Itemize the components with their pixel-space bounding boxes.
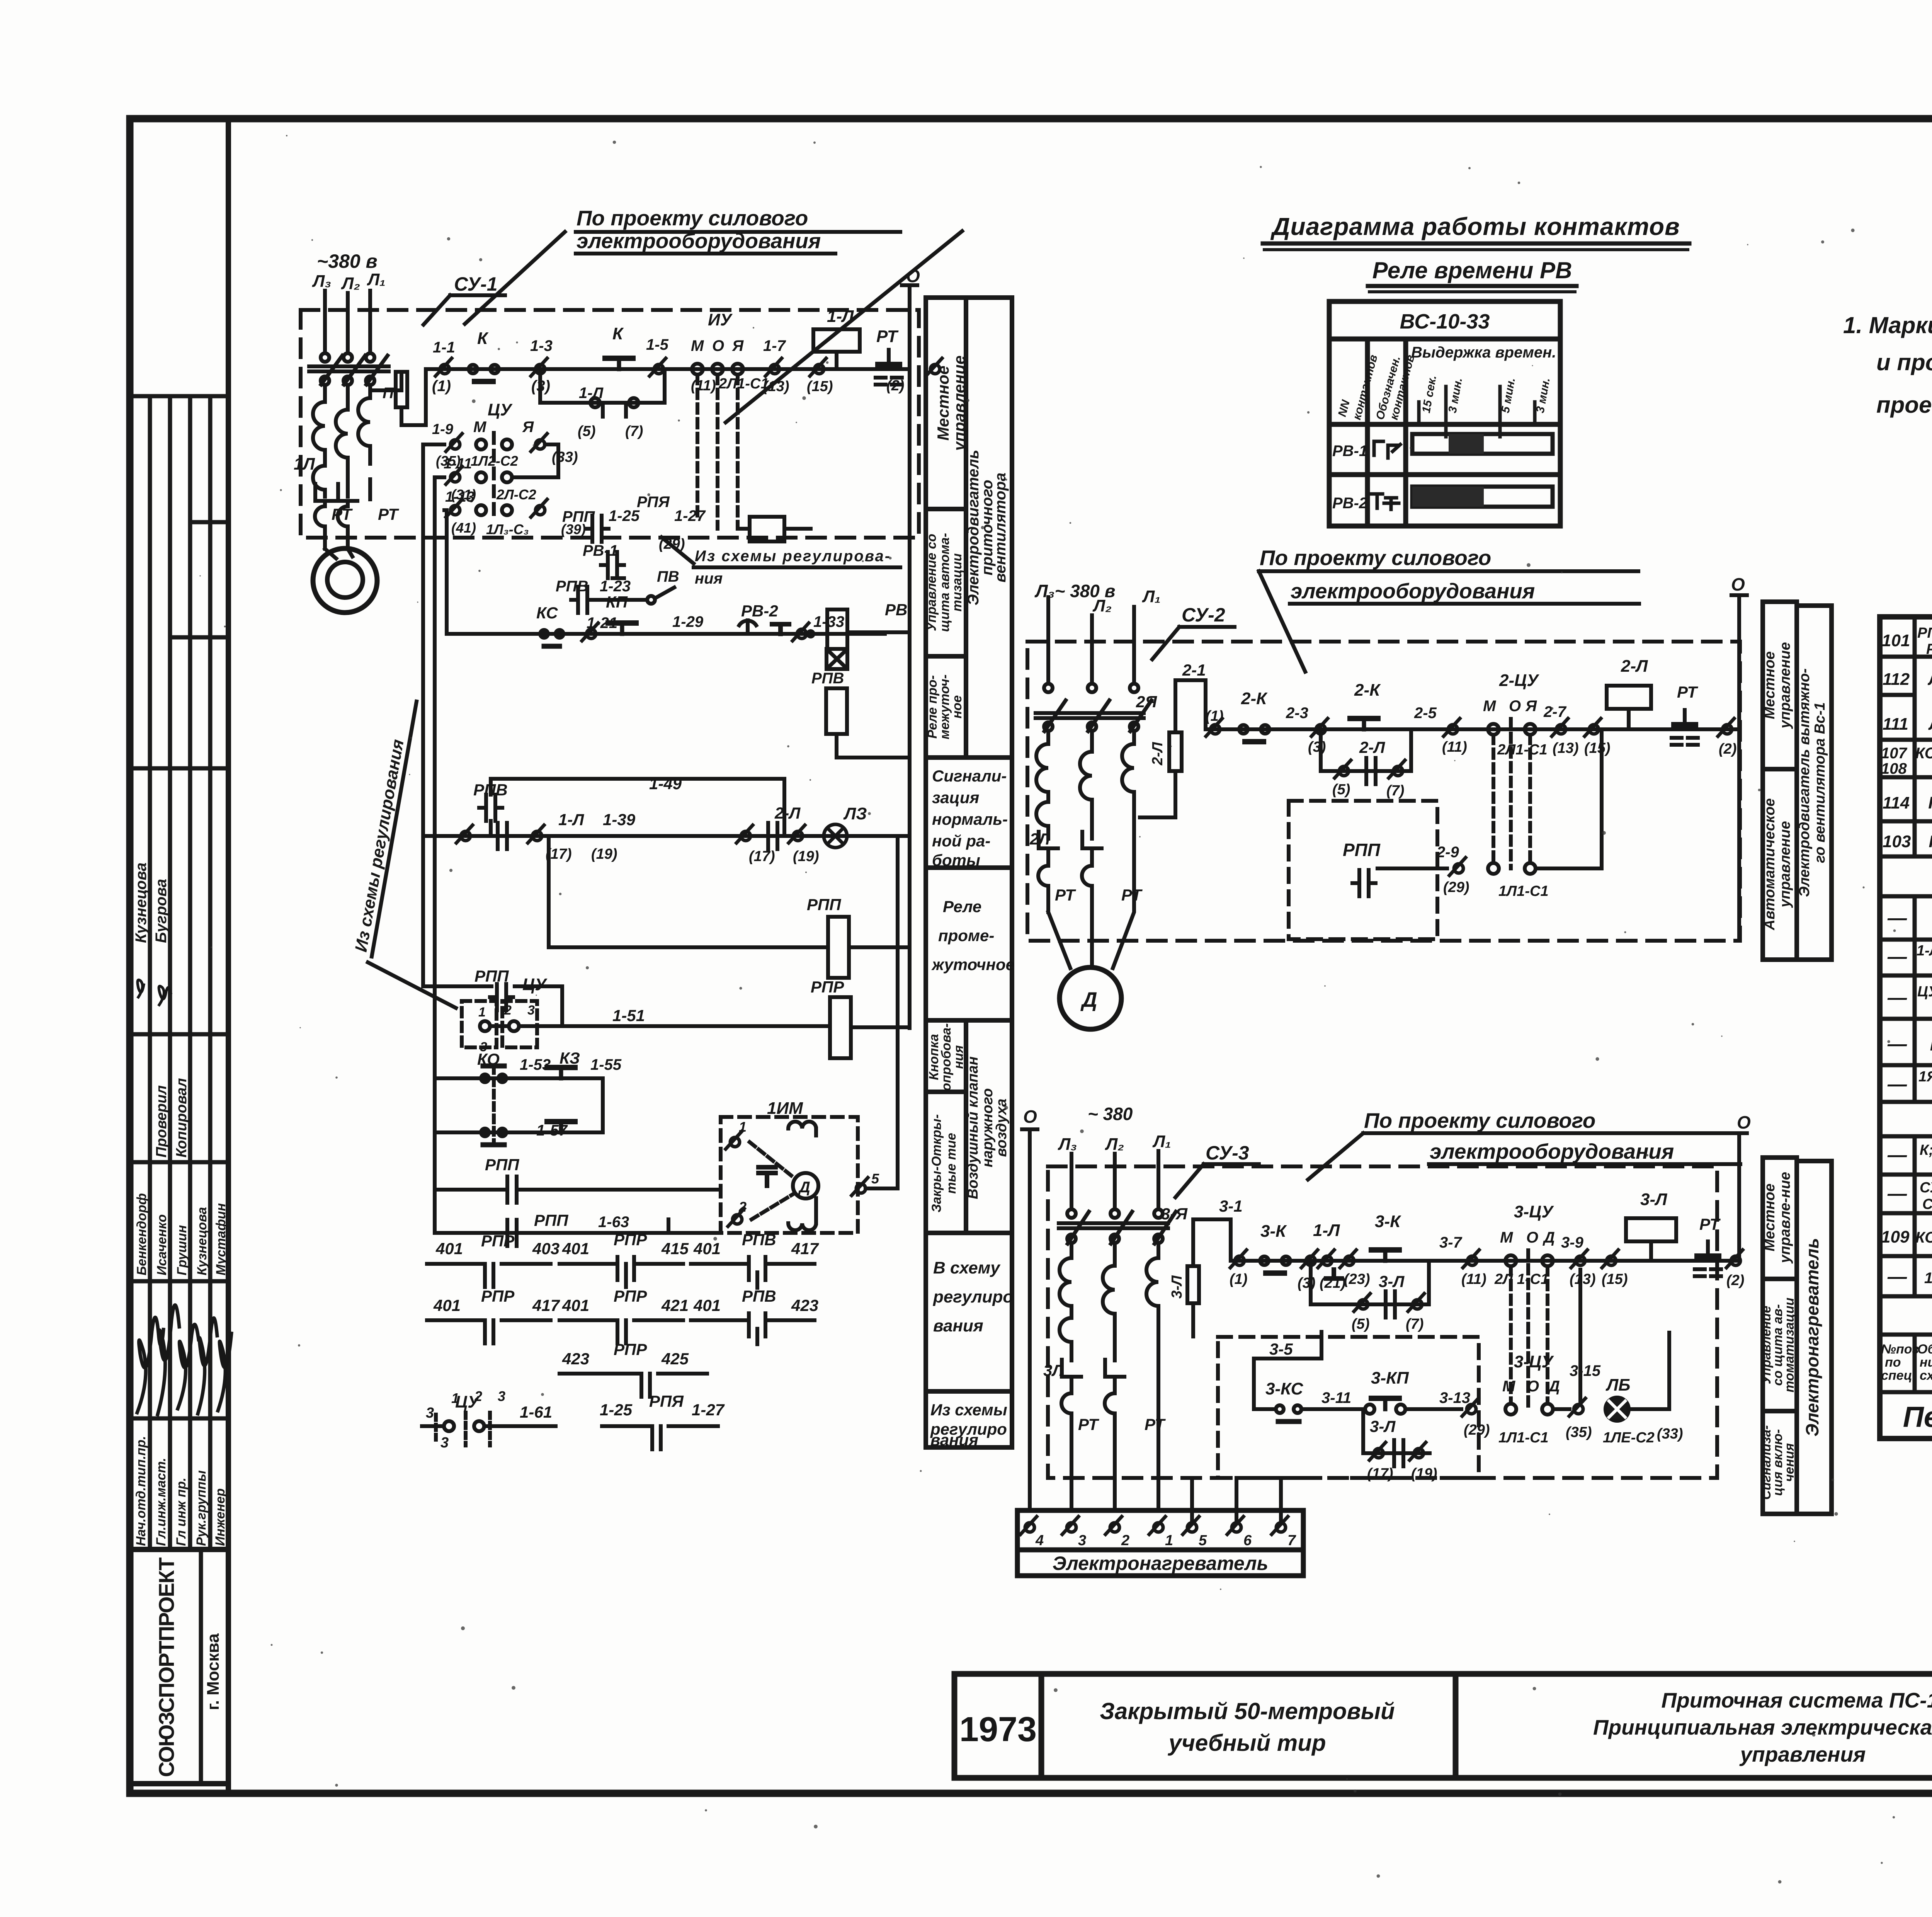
svg-text:1-1: 1-1 bbox=[433, 339, 455, 356]
svg-text:СУ-3: СУ-3 bbox=[1206, 1142, 1249, 1164]
svg-text:Бенкендорф: Бенкендорф bbox=[134, 1193, 149, 1275]
svg-text:КП: КП bbox=[606, 593, 628, 611]
svg-text:2-3: 2-3 bbox=[1286, 705, 1308, 722]
svg-text:Принципиальная электрическая: Принципиальная электрическая схема bbox=[1593, 1715, 1932, 1739]
svg-text:(11): (11) bbox=[1442, 739, 1467, 755]
svg-text:1ЛЕ-С2: 1ЛЕ-С2 bbox=[1603, 1430, 1655, 1446]
svg-text:(33): (33) bbox=[552, 449, 578, 465]
svg-text:Управление со: Управление со bbox=[924, 534, 939, 631]
svg-text:(19): (19) bbox=[591, 846, 617, 862]
svg-text:проекту силового электрообор: проекту силового электрооборудования. bbox=[1876, 392, 1932, 418]
svg-text:1-Л: 1-Л bbox=[558, 810, 584, 829]
svg-text:6: 6 bbox=[1243, 1532, 1252, 1549]
svg-text:Из схемы регулирова-: Из схемы регулирова- bbox=[695, 548, 891, 565]
svg-text:107: 107 bbox=[1881, 745, 1907, 762]
svg-text:ПВ: ПВ bbox=[1928, 793, 1932, 812]
svg-text:3-Л: 3-Л bbox=[1370, 1417, 1396, 1435]
svg-text:Гл инж пр.: Гл инж пр. bbox=[174, 1478, 189, 1546]
svg-text:схеме: схеме bbox=[1920, 1368, 1932, 1383]
svg-text:1-5: 1-5 bbox=[646, 336, 669, 353]
svg-text:(1): (1) bbox=[1206, 708, 1223, 724]
svg-text:3-11: 3-11 bbox=[1321, 1389, 1351, 1406]
svg-text:РВ: РВ bbox=[1929, 832, 1932, 851]
svg-text:РПП: РПП bbox=[485, 1156, 519, 1174]
svg-text:(19): (19) bbox=[1411, 1466, 1437, 1482]
svg-text:РПВ,РПЯ: РПВ,РПЯ bbox=[1917, 625, 1932, 641]
svg-text:Проверил: Проверил bbox=[153, 1085, 170, 1158]
svg-text:1973: 1973 bbox=[959, 1710, 1037, 1749]
svg-text:СОЮЗСПОРТПРОЕКТ: СОЮЗСПОРТПРОЕКТ bbox=[154, 1558, 179, 1777]
svg-text:№поз: №поз bbox=[1881, 1342, 1919, 1357]
svg-text:Выдержка времен.: Выдержка времен. bbox=[1411, 344, 1556, 361]
svg-text:ИУ: ИУ bbox=[708, 310, 733, 329]
svg-text:тизации: тизации bbox=[950, 553, 964, 611]
svg-text:3-Л: 3-Л bbox=[1379, 1272, 1405, 1290]
svg-text:КС; КП: КС; КП bbox=[1915, 745, 1932, 762]
svg-text:3-15: 3-15 bbox=[1570, 1362, 1601, 1379]
svg-text:РПЯ: РПЯ bbox=[637, 494, 670, 511]
svg-text:КЗ: КЗ bbox=[560, 1049, 580, 1067]
svg-text:СУ-2: СУ-2 bbox=[1182, 604, 1225, 626]
svg-text:Л₃: Л₃ bbox=[1058, 1135, 1077, 1154]
svg-text:5: 5 bbox=[1199, 1532, 1207, 1549]
svg-text:РПП: РПП bbox=[474, 967, 509, 985]
svg-text:3-КП: 3-КП bbox=[1371, 1369, 1409, 1388]
svg-text:2-5: 2-5 bbox=[1414, 705, 1437, 722]
svg-text:417: 417 bbox=[791, 1239, 819, 1258]
svg-text:регулиро: регулиро bbox=[933, 1287, 1013, 1306]
svg-text:(41): (41) bbox=[451, 520, 476, 536]
svg-text:1Л1-С1: 1Л1-С1 bbox=[1498, 883, 1549, 899]
svg-text:Электронагреватель: Электронагреватель bbox=[1053, 1553, 1268, 1574]
svg-text:М: М bbox=[1500, 1229, 1514, 1246]
svg-text:2-1: 2-1 bbox=[1182, 661, 1206, 679]
svg-text:3-Л: 3-Л bbox=[1640, 1190, 1667, 1209]
svg-text:3-ЦУ: 3-ЦУ bbox=[1514, 1202, 1554, 1221]
svg-text:Из схемы: Из схемы bbox=[930, 1401, 1007, 1419]
svg-text:(1): (1) bbox=[1230, 1271, 1247, 1287]
svg-text:(2): (2) bbox=[886, 378, 904, 394]
svg-text:О: О bbox=[1509, 698, 1521, 715]
svg-text:К: К bbox=[612, 324, 624, 343]
svg-text:РПП: РПП bbox=[807, 896, 841, 914]
svg-text:423: 423 bbox=[562, 1350, 589, 1368]
svg-text:(1): (1) bbox=[432, 378, 451, 395]
svg-text:ЦУ: ЦУ bbox=[488, 400, 513, 419]
svg-text:3: 3 bbox=[527, 1003, 535, 1018]
svg-text:417: 417 bbox=[532, 1296, 560, 1314]
svg-text:401: 401 bbox=[435, 1239, 463, 1258]
svg-text:1-63: 1-63 bbox=[598, 1214, 629, 1231]
svg-text:Инженер: Инженер bbox=[213, 1488, 228, 1546]
svg-text:П: П bbox=[383, 385, 394, 402]
svg-text:г. Москва: г. Москва bbox=[204, 1633, 223, 1710]
svg-text:1-9: 1-9 bbox=[432, 421, 453, 438]
svg-text:2-9: 2-9 bbox=[1436, 844, 1459, 861]
svg-text:РПП: РПП bbox=[1343, 840, 1381, 860]
svg-text:401: 401 bbox=[693, 1296, 721, 1314]
svg-text:3-7: 3-7 bbox=[1439, 1234, 1463, 1251]
svg-text:КО; КЗ: КО; КЗ bbox=[1915, 1229, 1932, 1246]
svg-text:3-1: 3-1 bbox=[1219, 1197, 1243, 1215]
svg-text:Д: Д bbox=[798, 1179, 810, 1196]
svg-text:108: 108 bbox=[1881, 760, 1907, 777]
svg-text:(15): (15) bbox=[1602, 1271, 1628, 1287]
svg-text:3-К: 3-К bbox=[1260, 1222, 1287, 1241]
svg-text:3-Л: 3-Л bbox=[1169, 1275, 1185, 1299]
svg-text:1-27: 1-27 bbox=[692, 1401, 725, 1419]
svg-text:1-7: 1-7 bbox=[763, 337, 786, 354]
svg-text:Закрытый 50-метровый: Закрытый 50-метровый bbox=[1100, 1698, 1395, 1724]
svg-text:2: 2 bbox=[474, 1388, 482, 1404]
svg-text:(29): (29) bbox=[1464, 1422, 1490, 1438]
svg-text:2Л1-С1: 2Л1-С1 bbox=[718, 376, 769, 392]
svg-text:—: — bbox=[1887, 946, 1907, 967]
svg-text:(15): (15) bbox=[1584, 740, 1611, 756]
svg-text:—: — bbox=[1887, 1183, 1907, 1204]
svg-text:2Л 1-С1: 2Л 1-С1 bbox=[1494, 1271, 1549, 1287]
svg-text:1ИМ: 1ИМ bbox=[1924, 1270, 1932, 1287]
svg-text:3: 3 bbox=[440, 1435, 449, 1451]
svg-text:3-5: 3-5 bbox=[1269, 1340, 1293, 1358]
svg-text:РВ-2: РВ-2 bbox=[741, 602, 778, 620]
svg-text:РТ: РТ bbox=[876, 327, 899, 346]
svg-text:Реле: Реле bbox=[943, 897, 981, 916]
svg-text:О: О bbox=[1731, 574, 1745, 594]
svg-text:3-К: 3-К bbox=[1375, 1212, 1401, 1231]
svg-text:401: 401 bbox=[433, 1296, 461, 1314]
svg-text:1-29: 1-29 bbox=[672, 613, 704, 630]
svg-text:го вентилятора Вс-1: го вентилятора Вс-1 bbox=[1812, 702, 1828, 863]
svg-text:О: О bbox=[1737, 1112, 1751, 1132]
svg-text:7: 7 bbox=[1287, 1532, 1296, 1549]
svg-text:111: 111 bbox=[1883, 715, 1908, 734]
svg-text:425: 425 bbox=[661, 1350, 689, 1368]
svg-text:401: 401 bbox=[562, 1296, 589, 1314]
svg-text:—: — bbox=[1887, 1266, 1907, 1287]
svg-text:электрооборудования: электрооборудования bbox=[1430, 1139, 1674, 1163]
svg-text:101: 101 bbox=[1882, 631, 1910, 650]
svg-text:РПВ: РПВ bbox=[742, 1231, 776, 1249]
svg-text:ния: ния bbox=[695, 570, 723, 587]
svg-text:Обозначе-: Обозначе- bbox=[1917, 1342, 1932, 1357]
svg-text:1: 1 bbox=[451, 1390, 459, 1406]
svg-text:РВ: РВ bbox=[885, 601, 907, 619]
svg-text:(3): (3) bbox=[1298, 1275, 1315, 1291]
svg-text:КС: КС bbox=[536, 604, 558, 622]
svg-text:По проекту силового: По проекту силового bbox=[1364, 1108, 1595, 1132]
svg-text:~380 в: ~380 в bbox=[317, 250, 378, 272]
svg-text:1Л: 1Л bbox=[294, 455, 315, 473]
svg-text:тые тие: тые тие bbox=[944, 1133, 959, 1194]
svg-text:2-Л: 2-Л bbox=[1621, 657, 1648, 676]
svg-text:(17): (17) bbox=[749, 848, 775, 865]
svg-text:Местное: Местное bbox=[1762, 1183, 1778, 1251]
svg-text:Кузнецова: Кузнецова bbox=[195, 1207, 209, 1275]
svg-text:(5): (5) bbox=[1352, 1316, 1369, 1332]
svg-text:Закры-Откры-: Закры-Откры- bbox=[929, 1114, 944, 1212]
svg-text:проме-: проме- bbox=[938, 926, 994, 945]
svg-text:1-11: 1-11 bbox=[444, 456, 472, 472]
svg-text:1-39: 1-39 bbox=[603, 810, 636, 829]
svg-text:ние по: ние по bbox=[1920, 1355, 1932, 1370]
svg-text:Л₁: Л₁ bbox=[367, 270, 386, 289]
svg-text:О: О bbox=[712, 337, 724, 354]
svg-text:1Л1-С1: 1Л1-С1 bbox=[1498, 1430, 1549, 1446]
svg-text:2-7: 2-7 bbox=[1543, 703, 1567, 720]
svg-text:вания: вания bbox=[930, 1431, 978, 1449]
svg-text:РПВ: РПВ bbox=[742, 1287, 776, 1305]
svg-text:Нач.отд.тип.пр.: Нач.отд.тип.пр. bbox=[134, 1436, 148, 1546]
svg-text:2Л1-С1: 2Л1-С1 bbox=[1497, 742, 1548, 758]
svg-text:Грушин: Грушин bbox=[175, 1225, 189, 1275]
svg-text:(7): (7) bbox=[1386, 783, 1404, 799]
svg-text:РПР: РПР bbox=[481, 1232, 515, 1250]
svg-text:1-Л: 1-Л bbox=[827, 307, 854, 326]
svg-text:2-Л: 2-Л bbox=[1150, 742, 1166, 766]
svg-text:вентилятора: вентилятора bbox=[992, 473, 1009, 582]
svg-text:РТ: РТ bbox=[1055, 886, 1076, 904]
svg-text:1-61: 1-61 bbox=[520, 1403, 552, 1421]
svg-text:415: 415 bbox=[661, 1239, 689, 1258]
svg-text:РТ: РТ bbox=[1699, 1215, 1721, 1233]
svg-text:2Л-С2: 2Л-С2 bbox=[496, 487, 536, 502]
svg-text:Приточная система ПС-1.: Приточная система ПС-1. bbox=[1662, 1688, 1932, 1712]
svg-text:РТ: РТ bbox=[1078, 1415, 1099, 1433]
svg-text:(2): (2) bbox=[1726, 1272, 1744, 1289]
svg-text:(19): (19) bbox=[793, 848, 819, 865]
svg-text:ЛЗ: ЛЗ bbox=[843, 804, 867, 823]
svg-text:3: 3 bbox=[426, 1405, 434, 1421]
svg-text:управление: управление bbox=[1777, 642, 1793, 729]
svg-text:(13): (13) bbox=[1553, 740, 1579, 756]
svg-text:ПВ: ПВ bbox=[657, 568, 679, 585]
svg-text:управление: управление bbox=[950, 356, 968, 452]
svg-text:401: 401 bbox=[562, 1239, 589, 1258]
svg-text:2: 2 bbox=[738, 1199, 747, 1215]
svg-text:электрооборудования: электрооборудования bbox=[1291, 579, 1535, 603]
svg-text:—: — bbox=[1887, 1073, 1907, 1095]
svg-text:В схему: В схему bbox=[933, 1258, 1001, 1277]
svg-text:М: М bbox=[1483, 698, 1497, 715]
svg-text:1-51: 1-51 bbox=[612, 1006, 645, 1025]
svg-text:К: К bbox=[477, 329, 489, 348]
svg-text:421: 421 bbox=[661, 1296, 689, 1314]
svg-text:томатизации: томатизации bbox=[1782, 1297, 1797, 1393]
svg-text:РТ: РТ bbox=[378, 505, 399, 523]
svg-text:—: — bbox=[1887, 987, 1907, 1008]
svg-text:нормаль-: нормаль- bbox=[932, 810, 1008, 828]
svg-text:1Л₃-С₃: 1Л₃-С₃ bbox=[486, 521, 529, 537]
svg-text:По проекту силового: По проекту силового bbox=[577, 206, 808, 230]
svg-text:3-КС: 3-КС bbox=[1265, 1379, 1304, 1398]
svg-text:2-Л: 2-Л bbox=[774, 804, 801, 822]
svg-text:СУ-3: СУ-3 bbox=[1922, 1196, 1932, 1212]
svg-text:2Я: 2Я bbox=[1136, 693, 1157, 711]
svg-text:О: О bbox=[906, 266, 920, 286]
svg-text:(15): (15) bbox=[807, 378, 833, 395]
svg-text:РВ-2: РВ-2 bbox=[1332, 495, 1367, 512]
svg-text:по: по bbox=[1885, 1355, 1901, 1370]
svg-text:(11): (11) bbox=[1461, 1271, 1486, 1287]
svg-text:Электродвигатель вытяжно-: Электродвигатель вытяжно- bbox=[1796, 668, 1813, 897]
svg-text:(35): (35) bbox=[1566, 1424, 1592, 1440]
svg-text:1. Маркировка клемм на бло: 1. Маркировка клемм на блоках управления bbox=[1843, 312, 1932, 338]
svg-text:(11): (11) bbox=[691, 378, 716, 394]
svg-text:РТ: РТ bbox=[1930, 1035, 1932, 1054]
svg-text:Автоматическое: Автоматическое bbox=[1762, 798, 1778, 930]
svg-text:управления: управления bbox=[1739, 1742, 1866, 1766]
svg-text:114: 114 bbox=[1883, 793, 1910, 812]
svg-text:(33): (33) bbox=[1657, 1426, 1683, 1442]
svg-text:К; 2-К;: К; 2-К; bbox=[1920, 1142, 1932, 1158]
svg-text:1: 1 bbox=[1165, 1532, 1173, 1549]
svg-text:ния: ния bbox=[951, 1045, 966, 1069]
svg-text:РТ: РТ bbox=[332, 505, 353, 523]
svg-text:1: 1 bbox=[739, 1119, 747, 1135]
svg-text:103: 103 bbox=[1883, 832, 1911, 851]
svg-text:(29): (29) bbox=[1443, 879, 1469, 896]
svg-text:1: 1 bbox=[478, 1005, 486, 1020]
svg-text:М: М bbox=[691, 337, 704, 354]
svg-text:109: 109 bbox=[1881, 1227, 1910, 1246]
svg-text:Электронагреватель: Электронагреватель bbox=[1802, 1238, 1822, 1437]
svg-text:1-23: 1-23 bbox=[600, 578, 631, 595]
svg-text:(2): (2) bbox=[1719, 741, 1736, 757]
svg-text:(5): (5) bbox=[578, 423, 595, 439]
svg-text:Л₁: Л₁ bbox=[1152, 1132, 1171, 1151]
svg-text:1-13: 1-13 bbox=[445, 489, 474, 505]
svg-text:Л₂: Л₂ bbox=[1105, 1135, 1124, 1154]
svg-text:чения: чения bbox=[1782, 1443, 1797, 1482]
svg-text:(3): (3) bbox=[1308, 739, 1326, 755]
svg-text:1-27: 1-27 bbox=[674, 507, 706, 524]
svg-text:РПР: РПР bbox=[614, 1231, 647, 1249]
svg-text:Я: Я bbox=[522, 419, 534, 436]
svg-text:Диаграмма работы контактов: Диаграмма работы контактов bbox=[1270, 213, 1680, 240]
svg-text:(17): (17) bbox=[1367, 1466, 1393, 1482]
svg-text:(21): (21) bbox=[1320, 1275, 1346, 1291]
svg-text:РПР: РПР bbox=[614, 1287, 647, 1305]
svg-text:423: 423 bbox=[791, 1296, 818, 1314]
svg-text:РПВ: РПВ bbox=[811, 670, 844, 687]
svg-text:3: 3 bbox=[1078, 1532, 1086, 1549]
svg-text:(7): (7) bbox=[1406, 1316, 1423, 1332]
svg-text:Перечень приборов и аппар: Перечень приборов и аппаратуры bbox=[1903, 1401, 1932, 1433]
svg-text:РТ: РТ bbox=[1677, 683, 1698, 701]
svg-text:1ИМ: 1ИМ bbox=[767, 1099, 803, 1118]
svg-text:—: — bbox=[1887, 1144, 1907, 1166]
svg-text:1-Л: 1-Л bbox=[1313, 1221, 1340, 1240]
svg-text:Л₁: Л₁ bbox=[1142, 587, 1161, 606]
svg-text:Я: Я bbox=[1525, 698, 1537, 715]
svg-text:управле-ние: управле-ние bbox=[1777, 1172, 1793, 1264]
svg-text:ВС-10-33: ВС-10-33 bbox=[1400, 310, 1490, 333]
svg-text:Воздушный клапан: Воздушный клапан bbox=[965, 1056, 981, 1199]
svg-text:РПП: РПП bbox=[562, 508, 595, 525]
svg-text:2-К: 2-К bbox=[1241, 689, 1268, 708]
svg-text:зация: зация bbox=[932, 788, 979, 807]
svg-text:ной ра-: ной ра- bbox=[932, 832, 990, 850]
svg-text:2: 2 bbox=[1121, 1532, 1129, 1549]
svg-text:Кузнецова: Кузнецова bbox=[133, 863, 150, 943]
svg-text:—: — bbox=[1887, 907, 1907, 929]
svg-text:и проводов, указанная в скобка: и проводов, указанная в скобках принята … bbox=[1876, 349, 1932, 375]
svg-text:боты: боты bbox=[932, 851, 980, 869]
svg-text:Л₂: Л₂ bbox=[1092, 596, 1112, 615]
svg-text:2-К: 2-К bbox=[1354, 681, 1381, 700]
svg-text:РТ: РТ bbox=[1145, 1415, 1166, 1433]
svg-text:спец: спец bbox=[1881, 1368, 1912, 1383]
svg-text:1Л2-С2: 1Л2-С2 bbox=[471, 453, 518, 469]
svg-text:РпР: РпР bbox=[1926, 641, 1932, 657]
svg-text:Д: Д bbox=[1543, 1229, 1555, 1246]
svg-text:1Я; 2-Я;: 1Я; 2-Я; bbox=[1918, 1069, 1932, 1085]
svg-text:Сигнали-: Сигнали- bbox=[932, 767, 1007, 785]
svg-text:управление: управление bbox=[1777, 821, 1793, 908]
svg-text:Гл.инж.маст.: Гл.инж.маст. bbox=[154, 1458, 168, 1546]
svg-text:Бугрова: Бугрова bbox=[153, 879, 170, 943]
svg-text:РВ-1: РВ-1 bbox=[1332, 443, 1367, 460]
svg-text:РПВ: РПВ bbox=[556, 578, 588, 595]
svg-text:(7): (7) bbox=[625, 423, 643, 439]
svg-text:5: 5 bbox=[871, 1171, 879, 1187]
svg-text:1-55: 1-55 bbox=[590, 1056, 622, 1073]
svg-text:1-Л: 1-Л bbox=[579, 385, 604, 402]
svg-text:РПЯ: РПЯ bbox=[649, 1392, 684, 1410]
svg-text:(5): (5) bbox=[1332, 781, 1350, 798]
svg-text:(23): (23) bbox=[1344, 1271, 1370, 1287]
svg-text:СУ-1 ÷: СУ-1 ÷ bbox=[1920, 1180, 1932, 1196]
svg-text:М: М bbox=[473, 419, 487, 436]
svg-text:РПР: РПР bbox=[481, 1287, 515, 1305]
svg-text:4: 4 bbox=[1035, 1532, 1044, 1549]
svg-text:РТ: РТ bbox=[1121, 886, 1143, 904]
svg-text:Я: Я bbox=[732, 337, 744, 354]
svg-text:Д: Д bbox=[1080, 987, 1097, 1011]
svg-text:Местное: Местное bbox=[1762, 651, 1778, 719]
svg-text:3: 3 bbox=[498, 1388, 505, 1404]
svg-text:3-Я: 3-Я bbox=[1161, 1205, 1188, 1223]
svg-text:112: 112 bbox=[1883, 670, 1910, 689]
svg-text:3-13: 3-13 bbox=[1439, 1389, 1470, 1406]
svg-text:(13): (13) bbox=[763, 378, 789, 395]
svg-text:3-9: 3-9 bbox=[1561, 1234, 1584, 1251]
svg-text:1-Л; 2-Л;: 1-Л; 2-Л; bbox=[1917, 943, 1932, 959]
svg-text:Мустафин: Мустафин bbox=[214, 1203, 228, 1275]
svg-text:403: 403 bbox=[532, 1239, 560, 1258]
svg-text:Рук.группы: Рук.группы bbox=[194, 1470, 209, 1546]
svg-text:Реле времени РВ: Реле времени РВ bbox=[1372, 257, 1572, 283]
svg-text:Л₂: Л₂ bbox=[341, 274, 360, 293]
svg-text:Местное: Местное bbox=[934, 366, 952, 441]
svg-text:ЦУ; 2ЦУ: ЦУ; 2ЦУ bbox=[1917, 984, 1932, 1000]
svg-text:РПП: РПП bbox=[534, 1211, 568, 1229]
svg-text:—: — bbox=[1887, 1033, 1907, 1055]
svg-text:2-Л: 2-Л bbox=[1359, 738, 1385, 756]
svg-text:Копировал: Копировал bbox=[173, 1078, 190, 1158]
svg-text:1-3: 1-3 bbox=[530, 337, 553, 354]
svg-text:2-ЦУ: 2-ЦУ bbox=[1499, 671, 1539, 690]
svg-text:401: 401 bbox=[693, 1239, 721, 1258]
svg-text:ное: ное bbox=[950, 695, 964, 718]
svg-text:РВ-1: РВ-1 bbox=[583, 542, 618, 559]
svg-text:жуточное: жуточное bbox=[931, 955, 1015, 974]
svg-text:СУ-1: СУ-1 bbox=[454, 273, 498, 295]
svg-text:(13): (13) bbox=[1570, 1271, 1596, 1287]
svg-text:О: О bbox=[1023, 1107, 1037, 1127]
svg-text:~ 380: ~ 380 bbox=[1088, 1104, 1133, 1124]
